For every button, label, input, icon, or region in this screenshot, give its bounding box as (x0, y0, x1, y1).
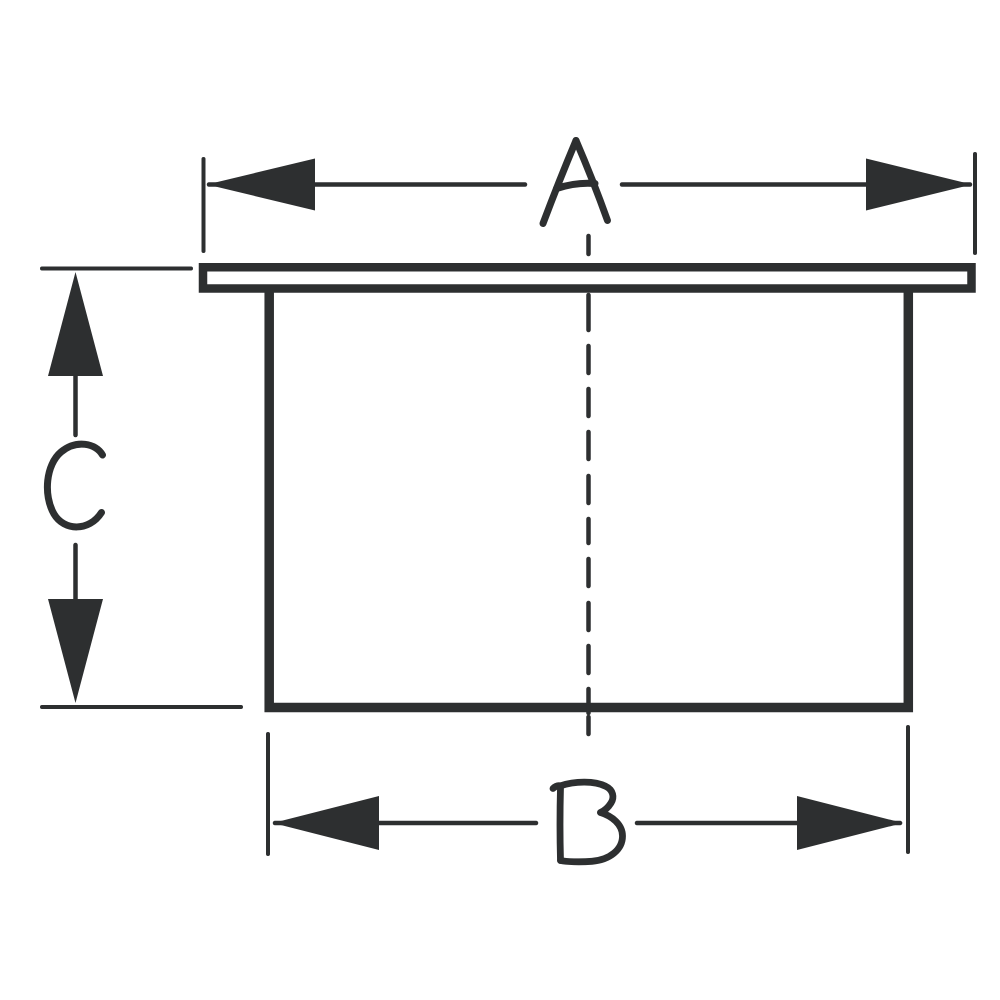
dimension line B right segment (637, 821, 900, 826)
arrowhead B right (797, 796, 903, 850)
dimension line B left segment (275, 821, 536, 826)
dimension line C upper segment (73, 376, 78, 435)
arrowhead A right (866, 159, 972, 211)
extension line A left (202, 159, 206, 251)
flange (top plate of insert) (203, 267, 972, 288)
arrowhead A left (207, 159, 315, 211)
label C (47, 444, 102, 527)
dimension line C lower segment (73, 545, 78, 601)
extension line C top (42, 267, 191, 271)
extension line C bottom (42, 705, 241, 709)
extension line B left (266, 734, 270, 854)
label B (553, 782, 623, 862)
label A (543, 141, 608, 224)
dimension line A left segment (209, 182, 525, 187)
extension line A right (973, 154, 977, 253)
extension line B right (906, 727, 910, 852)
centerline (dashed vertical axis) (586, 236, 591, 734)
dimension line A right segment (622, 182, 970, 187)
arrowhead C down (48, 599, 103, 703)
arrowhead B left (273, 796, 379, 850)
body (cup walls and bottom) (269, 292, 908, 708)
arrowhead C up (48, 272, 103, 376)
